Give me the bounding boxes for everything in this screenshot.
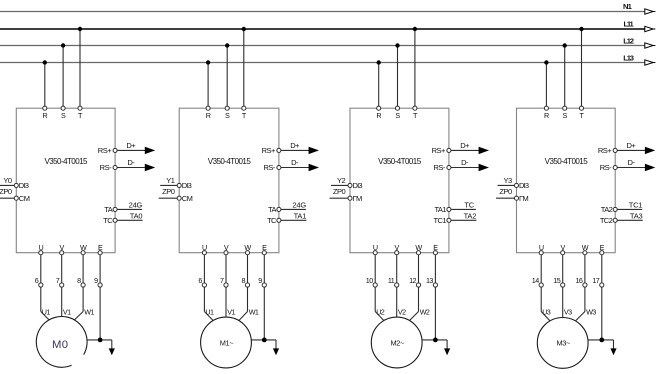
svg-text:U1: U1 (205, 307, 214, 316)
wire U4 out3 upper (584, 255, 586, 283)
wire U4 D+ (617, 149, 645, 151)
wire U3 net TA2 (451, 219, 477, 221)
wire U2 net 24G (281, 208, 306, 210)
junction U2 T-L11 (242, 27, 246, 31)
svg-text:TA3: TA3 (630, 211, 643, 220)
junction U3 E-tap (433, 338, 438, 343)
svg-text:12: 12 (409, 276, 416, 285)
wire U3 out3 upper (418, 255, 420, 283)
wire U2 D+ (281, 149, 309, 151)
wire U2 W-phase (247, 287, 249, 312)
svg-text:S: S (395, 111, 400, 120)
arrow L13 (645, 60, 653, 65)
svg-text:M1~: M1~ (220, 339, 233, 348)
wire U3 U-phase (374, 287, 376, 312)
junction U3 S-L12 (395, 43, 399, 47)
svg-text:S: S (563, 111, 568, 120)
wire U3 out1 upper (374, 255, 376, 283)
svg-text:RS-: RS- (600, 163, 612, 172)
junction U2 S-L12 (225, 43, 229, 47)
wire bus L13 (0, 62, 645, 64)
svg-text:11: 11 (388, 276, 395, 285)
svg-text:M2~: M2~ (391, 339, 404, 348)
svg-text:TA0: TA0 (130, 211, 143, 220)
wire U1 D+ (117, 149, 145, 151)
svg-text:D+: D+ (627, 141, 637, 150)
svg-text:V350-4T0015: V350-4T0015 (545, 157, 589, 166)
terminal U3 DI3 (348, 183, 352, 187)
svg-text:V350-4T0015: V350-4T0015 (378, 157, 422, 166)
connector U3 pin 12 (416, 283, 420, 287)
wire U2 out4 upper (263, 255, 265, 283)
terminal U3 R (377, 106, 381, 110)
arrow N1 (645, 9, 653, 14)
terminal U3 T (413, 106, 417, 110)
wire U4 W-phase (584, 287, 586, 312)
junction U1 S-L12 (61, 43, 65, 47)
svg-text:U1: U1 (42, 307, 51, 316)
svg-text:10: 10 (366, 276, 373, 285)
wire U4 E-ground (601, 287, 603, 340)
junction U3 R-L13 (377, 60, 381, 64)
svg-text:TA1: TA1 (434, 205, 446, 214)
ground U1 earth arrow (109, 348, 115, 355)
wire U3 V-phase (396, 287, 398, 317)
svg-text:D+: D+ (126, 141, 136, 150)
svg-text:D-: D- (627, 158, 635, 167)
terminal U1 DI3 (14, 183, 18, 187)
wire U1 out1 upper (40, 255, 42, 283)
VFD U2 box (179, 108, 279, 253)
wire U2 out2 upper (225, 255, 227, 283)
svg-text:U2: U2 (376, 307, 385, 316)
junction U4 E-tap (599, 338, 604, 343)
wire U3 E-ground (434, 287, 436, 340)
svg-text:DI3: DI3 (353, 181, 363, 190)
svg-text:9: 9 (94, 276, 98, 285)
wire U1 ZP0 to CM (0, 197, 16, 199)
wire U4 U-phase (540, 287, 542, 312)
terminal U4 R (544, 106, 548, 110)
wire U3 D+ (451, 149, 479, 151)
svg-text:Y2: Y2 (337, 176, 346, 185)
svg-text:ZP0: ZP0 (0, 187, 12, 196)
svg-text:V3: V3 (564, 307, 572, 316)
wire U1 T to L11 (79, 29, 81, 108)
junction U1 E-tap (98, 338, 103, 343)
motor M0 circle (36, 317, 87, 368)
wire U1 D- (117, 167, 145, 169)
arrow U4 D+ (645, 147, 654, 154)
svg-text:13: 13 (426, 276, 433, 285)
wire bus L12 (0, 45, 645, 47)
terminal U4 CM (514, 196, 518, 200)
connector U4 pin 17 (600, 283, 604, 287)
terminal U3 S (395, 106, 399, 110)
svg-text:R: R (544, 111, 549, 120)
svg-text:W2: W2 (420, 307, 430, 316)
wire U4 D- (617, 167, 645, 169)
arrow U1 D+ (145, 147, 154, 154)
wire U2 E-ground (263, 287, 265, 340)
terminal U1 R (43, 106, 47, 110)
svg-text:24G: 24G (129, 201, 143, 210)
svg-text:S: S (61, 111, 66, 120)
wire U1 out2 upper (61, 255, 63, 283)
svg-text:ZP0: ZP0 (162, 187, 175, 196)
wire U4 out1 upper (540, 255, 542, 283)
arrow L11 (645, 26, 653, 31)
svg-text:T: T (413, 111, 418, 120)
svg-text:M3~: M3~ (557, 339, 570, 348)
wire U1 S to L12 (62, 46, 64, 109)
svg-text:T: T (78, 111, 83, 120)
terminal U1 S (61, 106, 65, 110)
svg-text:CM: CM (19, 194, 30, 203)
motor M1 circle (201, 317, 252, 368)
svg-text:V350-4T0015: V350-4T0015 (44, 157, 88, 166)
wire bus L11 (0, 28, 645, 30)
svg-text:M0: M0 (52, 339, 68, 351)
svg-text:8: 8 (77, 276, 81, 285)
svg-text:D-: D- (127, 158, 135, 167)
svg-text:9: 9 (258, 276, 262, 285)
connector U2 pin 8 (245, 283, 249, 287)
connector U1 pin 9 (98, 283, 102, 287)
wire U4 Y3 to DI3 (498, 184, 517, 186)
arrow U4 D- (645, 164, 654, 171)
svg-text:TA: TA (104, 205, 112, 214)
terminal U2 DI3 (177, 183, 181, 187)
wire U1 out3 upper (82, 255, 84, 283)
connector U3 pin 13 (433, 283, 437, 287)
wire U1 U-phase (40, 287, 42, 312)
VFD U1 box (16, 108, 115, 253)
wire U3 W-phase (418, 287, 420, 312)
wire U2 U-phase (203, 287, 205, 312)
svg-text:TA2: TA2 (464, 211, 477, 220)
svg-text:Y3: Y3 (504, 176, 513, 185)
wire U4 net TA3 (617, 219, 643, 221)
svg-text:V2: V2 (398, 307, 406, 316)
wire U3 net TC (451, 208, 476, 210)
svg-text:N1: N1 (623, 2, 633, 11)
svg-text:DI3: DI3 (519, 181, 529, 190)
svg-text:16: 16 (576, 276, 583, 285)
svg-text:6: 6 (35, 276, 39, 285)
svg-text:TC1: TC1 (434, 216, 447, 225)
arrow U3 D+ (479, 147, 488, 154)
motor M2 circle (371, 317, 422, 368)
VFD U3 box (350, 108, 449, 253)
wire U3 S to L12 (397, 46, 399, 109)
svg-text:W3: W3 (586, 307, 596, 316)
wire U1 out4 upper (99, 255, 101, 283)
VFD U4 box (517, 108, 616, 253)
wire U1 motor earth tap (87, 339, 112, 341)
svg-text:24G: 24G (292, 201, 306, 210)
wire U4 motor earth tap (588, 339, 614, 341)
junction U1 T-L11 (78, 27, 82, 31)
terminal U1 T (78, 106, 82, 110)
svg-text:R: R (42, 111, 47, 120)
wire U2 motor earth tap (251, 339, 276, 341)
svg-text:W1: W1 (84, 307, 94, 316)
wire U1 net TA0 (117, 219, 143, 221)
junction U1 R-L13 (43, 60, 47, 64)
wire U2 out3 upper (247, 255, 249, 283)
junction U2 R-L13 (206, 60, 210, 64)
wire U4 net TC1 (617, 208, 642, 210)
svg-text:7: 7 (220, 276, 224, 285)
svg-text:6: 6 (198, 276, 202, 285)
svg-text:TC: TC (267, 216, 277, 225)
terminal U2 R (206, 106, 210, 110)
terminal U2 S (225, 106, 229, 110)
arrow U1 D- (145, 164, 154, 171)
svg-text:ZP0: ZP0 (499, 187, 512, 196)
svg-text:RS+: RS+ (432, 146, 446, 155)
wire U1 V-phase (61, 287, 63, 317)
terminal U3 CM (348, 196, 352, 200)
svg-text:TA: TA (268, 205, 276, 214)
arrow U2 D+ (309, 147, 318, 154)
ground U3 earth arrow (444, 348, 450, 355)
svg-text:ГM: ГM (519, 194, 529, 203)
connector U2 pin 6 (202, 283, 206, 287)
svg-text:TC: TC (464, 201, 474, 210)
svg-text:T: T (242, 111, 247, 120)
svg-text:RS-: RS- (263, 163, 275, 172)
terminal U4 T (579, 106, 583, 110)
junction U4 R-L13 (544, 60, 548, 64)
connector U3 pin 11 (395, 283, 399, 287)
wire U1 Y0 to DI3 (0, 184, 16, 186)
wire U3 out2 upper (396, 255, 398, 283)
wire U1 R to L13 (44, 63, 46, 109)
svg-text:17: 17 (592, 276, 599, 285)
svg-text:RS+: RS+ (598, 146, 612, 155)
svg-text:DI3: DI3 (19, 181, 29, 190)
svg-text:15: 15 (553, 276, 560, 285)
svg-text:TC1: TC1 (629, 201, 643, 210)
wire U4 T to L11 (581, 29, 583, 108)
junction U4 S-L12 (563, 43, 567, 47)
svg-text:D-: D- (291, 158, 299, 167)
svg-text:RS+: RS+ (98, 146, 112, 155)
wire U2 net TA1 (281, 219, 307, 221)
svg-text:U3: U3 (542, 307, 551, 316)
wire U3 Y2 to DI3 (331, 184, 350, 186)
wire U3 R to L13 (378, 63, 380, 109)
svg-text:TC: TC (103, 216, 113, 225)
wire U3 T to L11 (414, 29, 416, 108)
wire U4 R to L13 (545, 63, 547, 109)
arrow U3 D- (479, 164, 488, 171)
svg-text:D+: D+ (460, 141, 470, 150)
terminal U2 T (242, 106, 246, 110)
wire U2 V-phase (225, 287, 227, 317)
svg-text:R: R (206, 111, 211, 120)
terminal U1 CM (14, 196, 18, 200)
svg-text:14: 14 (532, 276, 539, 285)
junction U4 T-L11 (579, 27, 583, 31)
wire U1 E-ground (99, 287, 101, 340)
terminal U4 DI3 (514, 183, 518, 187)
svg-text:7: 7 (56, 276, 60, 285)
wire U3 motor earth tap (422, 339, 447, 341)
svg-text:RS-: RS- (100, 163, 112, 172)
svg-text:L12: L12 (623, 36, 633, 45)
junction U3 T-L11 (413, 27, 417, 31)
motor M3 circle (537, 318, 588, 369)
ground U4 earth arrow (610, 348, 616, 355)
svg-text:D-: D- (461, 158, 469, 167)
wire U2 S to L12 (226, 46, 228, 109)
wire U2 ZP0 to CM (159, 197, 180, 199)
svg-text:RS+: RS+ (262, 146, 276, 155)
wire U2 D- (281, 167, 309, 169)
svg-text:R: R (376, 111, 381, 120)
connector U1 pin 6 (39, 283, 43, 287)
wire U1 net 24G (117, 208, 142, 210)
wire U2 T to L11 (243, 29, 245, 108)
svg-text:T: T (580, 111, 585, 120)
svg-text:RS-: RS- (433, 163, 445, 172)
svg-text:ZP0: ZP0 (333, 187, 346, 196)
wire U2 R to L13 (207, 63, 209, 109)
svg-text:V1: V1 (63, 307, 71, 316)
wire U4 out2 upper (562, 255, 564, 283)
wire bus N1 (0, 11, 645, 13)
svg-text:Y1: Y1 (166, 176, 175, 185)
svg-text:ГM: ГM (353, 194, 363, 203)
wire U3 out4 upper (434, 255, 436, 283)
wire U4 out4 upper (601, 255, 603, 283)
wire U4 V-phase (562, 287, 564, 318)
connector U4 pin 16 (583, 283, 587, 287)
svg-text:V350-4T0015: V350-4T0015 (208, 157, 252, 166)
svg-text:DI3: DI3 (182, 181, 192, 190)
wire U3 D- (451, 167, 479, 169)
connector U4 pin 15 (561, 283, 565, 287)
svg-text:TA2: TA2 (601, 205, 613, 214)
wire U2 out1 upper (203, 255, 205, 283)
svg-text:8: 8 (241, 276, 245, 285)
terminal U2 CM (177, 196, 181, 200)
svg-text:S: S (225, 111, 230, 120)
ground U2 earth arrow (273, 348, 279, 355)
connector U2 pin 7 (224, 283, 228, 287)
svg-text:CM: CM (182, 194, 193, 203)
svg-text:Y0: Y0 (3, 176, 12, 185)
svg-text:V1: V1 (227, 307, 235, 316)
wire U4 ZP0 to CM (496, 197, 517, 199)
wire U3 ZP0 to CM (330, 197, 351, 199)
svg-text:TA1: TA1 (294, 211, 307, 220)
svg-text:L11: L11 (623, 20, 634, 29)
svg-text:D+: D+ (290, 141, 300, 150)
connector U1 pin 7 (60, 283, 64, 287)
connector U4 pin 14 (539, 283, 543, 287)
wire U2 Y1 to DI3 (160, 184, 179, 186)
junction U2 E-tap (262, 338, 267, 343)
wire U1 W-phase (82, 287, 84, 312)
svg-text:L13: L13 (623, 54, 633, 63)
terminal U4 S (563, 106, 567, 110)
wire U4 S to L12 (564, 46, 566, 109)
svg-text:W1: W1 (249, 307, 259, 316)
connector U1 pin 8 (81, 283, 85, 287)
arrow L12 (645, 43, 653, 48)
connector U2 pin 9 (262, 283, 266, 287)
svg-text:TC2: TC2 (600, 216, 613, 225)
connector U3 pin 10 (373, 283, 377, 287)
arrow U2 D- (309, 164, 318, 171)
